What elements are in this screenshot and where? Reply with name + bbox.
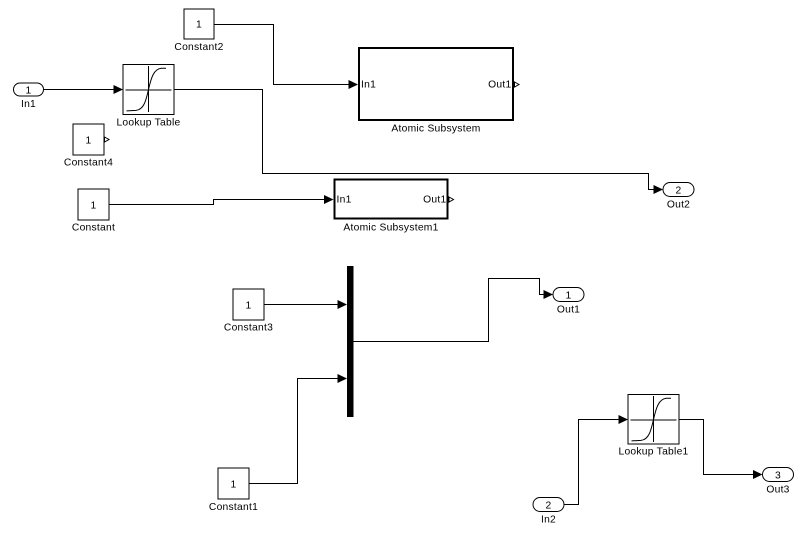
svg-text:In1: In1 [21, 99, 36, 110]
outport Out1 [553, 288, 584, 316]
svg-text:In1: In1 [337, 195, 352, 206]
svg-text:1: 1 [196, 20, 202, 31]
svg-text:Atomic Subsystem1: Atomic Subsystem1 [343, 223, 438, 234]
block Atomic Subsystem [359, 48, 519, 135]
svg-text:Out1: Out1 [488, 80, 511, 91]
wire Lookup Table1 to Out3 [679, 420, 763, 480]
svg-text:2: 2 [546, 501, 552, 512]
svg-text:Out3: Out3 [766, 485, 789, 496]
svg-text:1: 1 [26, 86, 32, 97]
svg-text:3: 3 [775, 471, 781, 482]
mux Mux [347, 266, 354, 417]
svg-text:1: 1 [246, 301, 252, 312]
inport In1 [14, 83, 44, 110]
wire Constant to Atomic Subsystem1 [109, 195, 334, 205]
svg-text:Out1: Out1 [557, 305, 580, 316]
wire Constant2 to Atomic Subsystem [214, 25, 358, 90]
svg-text:Constant4: Constant4 [64, 158, 113, 169]
svg-text:1: 1 [231, 480, 237, 491]
svg-text:In1: In1 [361, 80, 376, 91]
svg-text:Atomic Subsystem: Atomic Subsystem [391, 124, 480, 135]
block Atomic Subsystem1 [335, 180, 454, 234]
block Constant1 [209, 468, 258, 513]
svg-text:1: 1 [566, 291, 572, 302]
svg-text:2: 2 [676, 186, 682, 197]
svg-text:Out1: Out1 [423, 195, 446, 206]
svg-text:Constant1: Constant1 [209, 502, 258, 513]
wire Lookup Table to Out2 [174, 90, 663, 195]
svg-text:1: 1 [86, 136, 92, 147]
inport In2 [533, 498, 564, 526]
block Constant4 [64, 124, 113, 169]
block Constant2 [174, 9, 223, 53]
svg-text:Constant2: Constant2 [174, 42, 223, 53]
svg-text:In2: In2 [541, 515, 556, 526]
svg-text:Constant3: Constant3 [224, 323, 273, 334]
svg-text:Lookup Table1: Lookup Table1 [618, 447, 688, 458]
svg-text:Constant: Constant [72, 223, 115, 234]
block Constant3 [224, 289, 273, 334]
svg-text:1: 1 [91, 201, 97, 212]
outport Out3 [763, 468, 794, 496]
wire Constant1 to Mux [249, 374, 347, 484]
outport Out2 [663, 183, 694, 211]
wire Constant3 to Mux [264, 300, 347, 309]
wire Mux to Out1 [354, 279, 554, 342]
block Lookup Table [116, 65, 180, 129]
svg-text:Lookup Table: Lookup Table [116, 118, 180, 129]
svg-text:Out2: Out2 [667, 200, 690, 211]
block Constant [72, 189, 115, 234]
wire In2 to Lookup Table1 [564, 415, 628, 505]
wire In1 to Lookup Table [44, 85, 124, 94]
block Lookup Table1 [618, 395, 688, 458]
